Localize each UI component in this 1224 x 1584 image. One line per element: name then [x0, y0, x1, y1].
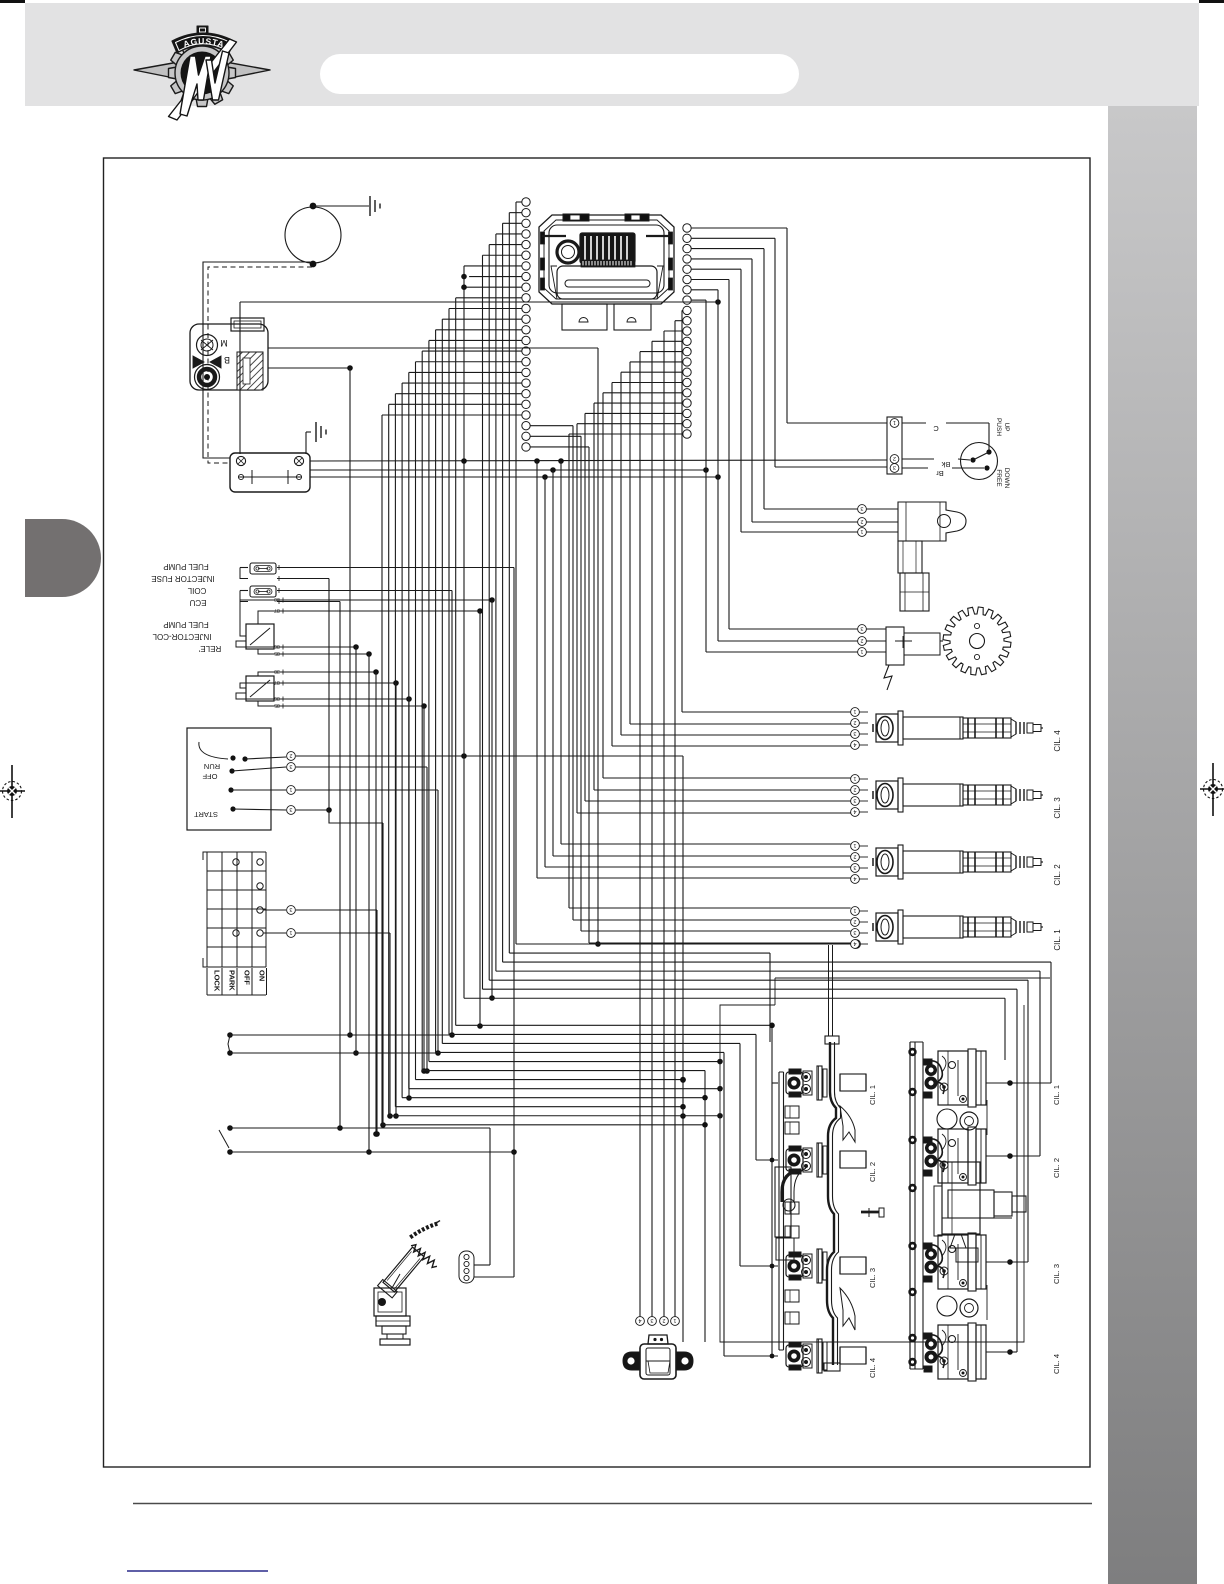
svg-text:1: 1 [289, 786, 292, 792]
svg-text:Bk: Bk [941, 460, 950, 469]
svg-text:3: 3 [853, 929, 856, 935]
svg-text:30: 30 [274, 596, 280, 602]
svg-text:1: 1 [673, 1317, 676, 1323]
svg-text:ON: ON [258, 970, 267, 981]
svg-text:FREE: FREE [995, 469, 1002, 487]
svg-text:2: 2 [662, 1317, 665, 1323]
svg-text:START: START [194, 810, 218, 819]
svg-text:87: 87 [274, 679, 280, 685]
svg-text:COIL: COIL [187, 586, 206, 595]
svg-text:4: 4 [853, 940, 856, 946]
svg-text:CIL. 2: CIL. 2 [1053, 864, 1062, 886]
svg-text:2: 2 [853, 719, 856, 725]
svg-text:FUEL PUMP: FUEL PUMP [163, 562, 209, 571]
svg-text:3: 3 [853, 797, 856, 803]
svg-text:C: C [933, 424, 939, 433]
svg-text:1: 1 [853, 842, 856, 848]
svg-text:4: 4 [853, 741, 856, 747]
svg-text:ECU: ECU [189, 598, 206, 607]
svg-text:2: 2 [289, 752, 292, 758]
svg-text:CIL. 4: CIL. 4 [1052, 1354, 1061, 1374]
svg-text:CIL. 3: CIL. 3 [868, 1268, 877, 1288]
svg-text:CIL. 3: CIL. 3 [1053, 797, 1062, 819]
svg-text:CIL. 3: CIL. 3 [1052, 1264, 1061, 1284]
svg-text:4: 4 [853, 875, 856, 881]
svg-text:LOCK: LOCK [213, 970, 222, 992]
svg-text:3: 3 [860, 625, 863, 631]
svg-text:OFF: OFF [202, 772, 217, 781]
svg-text:86: 86 [274, 695, 280, 701]
svg-text:2: 2 [893, 455, 896, 461]
svg-text:UP: UP [1003, 422, 1010, 431]
svg-text:CIL. 1: CIL. 1 [1052, 1085, 1061, 1105]
svg-text:3: 3 [650, 1317, 653, 1323]
svg-text:86: 86 [274, 643, 280, 649]
svg-text:CIL. 1: CIL. 1 [868, 1085, 877, 1105]
svg-text:INJECTOR FUSE: INJECTOR FUSE [151, 574, 214, 583]
svg-text:85: 85 [274, 702, 280, 708]
svg-text:DOWN: DOWN [1003, 468, 1010, 489]
svg-text:30: 30 [274, 668, 280, 674]
svg-text:3: 3 [853, 864, 856, 870]
svg-text:3: 3 [860, 505, 863, 511]
svg-text:Br: Br [936, 469, 944, 478]
svg-text:INJECTOR-COL: INJECTOR-COL [152, 632, 212, 641]
svg-text:4: 4 [638, 1317, 641, 1323]
svg-text:87: 87 [274, 607, 280, 613]
svg-text:RUN: RUN [204, 762, 220, 771]
svg-text:B: B [224, 355, 230, 365]
svg-text:OFF: OFF [243, 970, 252, 985]
svg-text:RELE': RELE' [198, 644, 221, 653]
svg-text:3: 3 [289, 806, 292, 812]
svg-text:1: 1 [289, 929, 292, 935]
svg-text:CIL. 1: CIL. 1 [1053, 929, 1062, 951]
svg-text:1: 1 [860, 528, 863, 534]
svg-text:1: 1 [853, 907, 856, 913]
svg-text:3: 3 [893, 464, 896, 470]
svg-text:FUEL PUMP: FUEL PUMP [163, 620, 209, 629]
svg-text:2: 2 [860, 518, 863, 524]
svg-text:2: 2 [853, 786, 856, 792]
svg-text:2: 2 [853, 853, 856, 859]
svg-text:85: 85 [274, 650, 280, 656]
svg-text:M: M [220, 338, 228, 348]
svg-text:1: 1 [860, 648, 863, 654]
svg-text:1: 1 [853, 775, 856, 781]
svg-text:2: 2 [860, 637, 863, 643]
svg-text:1: 1 [893, 419, 896, 425]
svg-text:PARK: PARK [228, 970, 237, 991]
svg-text:CIL. 2: CIL. 2 [1052, 1158, 1061, 1178]
svg-text:CIL. 2: CIL. 2 [868, 1162, 877, 1182]
svg-text:CIL. 4: CIL. 4 [868, 1358, 877, 1378]
svg-text:PUSH: PUSH [995, 418, 1002, 436]
svg-text:4: 4 [853, 808, 856, 814]
svg-text:3: 3 [289, 906, 292, 912]
svg-text:2: 2 [853, 918, 856, 924]
svg-text:3: 3 [853, 730, 856, 736]
svg-text:CIL. 4: CIL. 4 [1053, 730, 1062, 752]
svg-text:3: 3 [289, 763, 292, 769]
svg-text:1: 1 [853, 708, 856, 714]
